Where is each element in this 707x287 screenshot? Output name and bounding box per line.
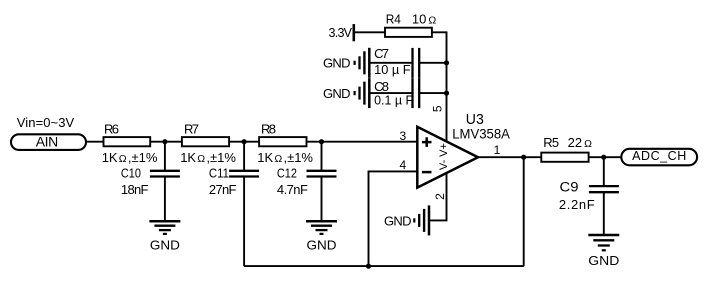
wire R6 to R7 — [150, 141, 182, 143]
svg-text:10Ω: 10Ω — [412, 11, 436, 26]
svg-text:R6: R6 — [104, 121, 119, 136]
junction node3 — [319, 139, 324, 144]
ground GND C10 — [149, 221, 180, 252]
svg-text:Vin=0~3V: Vin=0~3V — [17, 115, 75, 130]
wire U3 Vminus to GND — [429, 172, 447, 220]
svg-text:GND: GND — [384, 213, 412, 228]
svg-text:10 µ F: 10 µ F — [374, 62, 411, 77]
ground GND C7 — [323, 48, 369, 78]
svg-text:18nF: 18nF — [121, 182, 149, 197]
svg-text:C10: C10 — [121, 166, 141, 181]
wire U3 output — [478, 156, 541, 158]
junction C7 bus — [444, 60, 449, 65]
capacitor C8 — [369, 78, 446, 108]
svg-text:2.2nF: 2.2nF — [559, 197, 595, 212]
svg-text:1KΩ,±1%: 1KΩ,±1% — [257, 150, 313, 165]
svg-text:GND: GND — [323, 56, 351, 71]
ground GND C9 — [588, 235, 619, 268]
wire U3 pin4 feedback riser — [369, 171, 418, 266]
wire AIN to R6 — [87, 141, 104, 143]
svg-text:1: 1 — [494, 143, 501, 157]
junction node1 — [162, 139, 167, 144]
port ADC_CH — [621, 149, 697, 166]
svg-text:R5: R5 — [543, 135, 559, 150]
junction output node — [521, 155, 526, 160]
junction feedback node — [366, 264, 371, 269]
svg-text:27nF: 27nF — [209, 182, 237, 197]
svg-text:C12: C12 — [277, 166, 297, 181]
svg-text:3.3V: 3.3V — [329, 26, 353, 40]
svg-text:R7: R7 — [184, 121, 199, 136]
port AIN — [11, 134, 86, 150]
svg-text:1KΩ,±1%: 1KΩ,±1% — [102, 150, 158, 165]
svg-text:LMV358A: LMV358A — [452, 126, 510, 142]
wire R8 to U3 pin3 — [307, 141, 418, 143]
wire output feedback riser — [523, 157, 525, 266]
power port 3.3V — [329, 24, 354, 41]
junction C8 bus — [444, 91, 449, 96]
capacitor C7 — [369, 46, 446, 78]
svg-text:GND: GND — [307, 238, 337, 253]
svg-text:V-: V- — [438, 159, 450, 170]
junction node2 — [242, 139, 247, 144]
capacitor C9 — [559, 157, 619, 235]
wire R4 to V+ bus — [432, 32, 447, 142]
svg-text:GND: GND — [588, 253, 619, 268]
junction C9 node — [601, 155, 606, 160]
svg-text:C7: C7 — [374, 46, 389, 61]
capacitor C10 — [121, 142, 180, 221]
svg-text:4: 4 — [399, 158, 406, 172]
capacitor C11 — [209, 142, 259, 266]
resistor R4 — [385, 11, 436, 37]
svg-text:GND: GND — [150, 238, 180, 253]
svg-text:2: 2 — [433, 193, 447, 200]
ground GND U3 — [384, 205, 429, 235]
svg-text:AIN: AIN — [36, 134, 59, 150]
svg-text:V+: V+ — [438, 143, 450, 157]
resistor R7 — [180, 121, 236, 165]
svg-text:22Ω: 22Ω — [568, 135, 592, 150]
wire 3.3V to R4 — [354, 31, 385, 33]
svg-text:4.7nF: 4.7nF — [277, 182, 308, 197]
svg-text:R4: R4 — [386, 11, 401, 26]
resistor R5 — [541, 135, 592, 162]
svg-text:1KΩ,±1%: 1KΩ,±1% — [180, 150, 236, 165]
op-amp U3 — [417, 112, 510, 188]
svg-text:5: 5 — [431, 105, 445, 112]
svg-text:ADC_CH: ADC_CH — [632, 149, 686, 163]
svg-text:3: 3 — [399, 129, 406, 143]
ground GND C12 — [306, 221, 337, 252]
resistor R6 — [102, 121, 158, 165]
wire feedback bottom — [244, 265, 524, 267]
svg-text:C9: C9 — [560, 180, 579, 195]
svg-text:0.1 µ F: 0.1 µ F — [374, 92, 413, 107]
wire R7 to R8 — [229, 141, 259, 143]
wire R5 to ADC_CH — [589, 156, 622, 158]
capacitor C12 — [277, 142, 337, 221]
svg-text:GND: GND — [323, 86, 351, 101]
resistor R8 — [257, 121, 313, 165]
svg-text:R8: R8 — [261, 121, 276, 136]
svg-text:C11: C11 — [209, 166, 229, 181]
ground GND C8 — [323, 78, 369, 108]
